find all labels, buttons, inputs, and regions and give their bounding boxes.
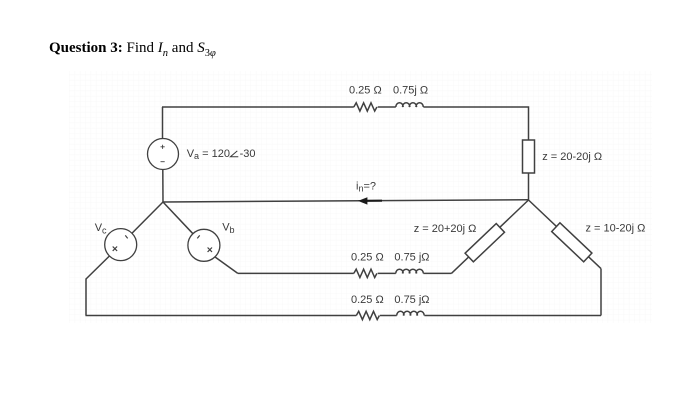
wire neutral node to Vc source	[132, 202, 163, 233]
node: load star junction	[528, 199, 529, 200]
resistor 0.25Ω (row1 line)	[354, 269, 377, 277]
resistor 0.25Ω (bottom line)	[356, 311, 379, 319]
svg-text:z = 20+20j Ω: z = 20+20j Ω	[414, 223, 477, 235]
wire top-left vertical (corner to Va top)	[162, 107, 164, 139]
svg-text:z = 20-20j Ω: z = 20-20j Ω	[542, 151, 602, 163]
wire diagonal row1 corner to load star node	[451, 200, 528, 273]
impedance Z2 box z = 20+20j Ω (diagonal)	[465, 224, 504, 262]
inductor 0.75jΩ (bottom line)	[397, 311, 425, 315]
wire Va bottom to neutral node	[162, 169, 164, 202]
wire row1 horizontal left segment (phase b line)	[238, 272, 354, 274]
svg-text:0.75 jΩ: 0.75 jΩ	[394, 294, 429, 306]
wire bottom-right vertical	[600, 269, 602, 316]
wire neutral node to Vb source	[163, 202, 193, 234]
wire bottom-left vertical	[85, 279, 87, 316]
wire bottom horizontal left segment (phase c line)	[86, 315, 357, 317]
svg-text:z = 10-20j Ω: z = 10-20j Ω	[586, 223, 646, 235]
svg-text:0.25 Ω: 0.25 Ω	[351, 294, 384, 306]
wire between resistor and inductor (top line)	[378, 106, 396, 108]
label Va = 120∠-30	[187, 148, 256, 161]
svg-text:0.75j Ω: 0.75j Ω	[393, 84, 428, 96]
resistor 0.25Ω (top line)	[354, 103, 377, 111]
impedance Z1 box z = 20-20j Ω	[523, 140, 535, 173]
wire bottom horizontal right segment	[424, 315, 601, 317]
svg-text:-30: -30	[240, 148, 256, 160]
arrow on i_n wire (pointing left)	[358, 197, 382, 204]
wire Vb source to row1 corner	[215, 257, 238, 274]
voltage source Vb (circle with marks)	[188, 229, 220, 261]
wire between resistor and inductor (row1 line)	[378, 272, 396, 274]
svg-text:0.25 Ω: 0.25 Ω	[351, 252, 384, 264]
inductor 0.75jΩ (top line)	[396, 103, 423, 107]
wire row1 to diagonal corner	[423, 272, 451, 274]
wire top horizontal left segment	[162, 106, 354, 108]
voltage source Vc (circle with marks)	[105, 229, 137, 261]
wire Vc source to bottom-left corner	[86, 256, 109, 279]
wire top horizontal right segment and right vertical down to node	[423, 107, 528, 200]
svg-text:0.75 jΩ: 0.75 jΩ	[394, 252, 429, 264]
node: neutral junction	[162, 201, 163, 202]
wire diagonal load star node to bottom-right corner	[529, 200, 602, 269]
inductor 0.75jΩ (row1 line)	[396, 269, 423, 273]
wire i_n from neutral node to load star node	[163, 200, 529, 202]
svg-text:0.25 Ω: 0.25 Ω	[349, 84, 382, 96]
voltage source Va (circle with + -)	[148, 139, 179, 170]
impedance Z3 box z = 10-20j Ω (diagonal)	[552, 223, 592, 262]
wire between resistor and inductor (bottom line)	[380, 315, 397, 317]
svg-text:Va = 120: Va = 120	[187, 148, 230, 161]
